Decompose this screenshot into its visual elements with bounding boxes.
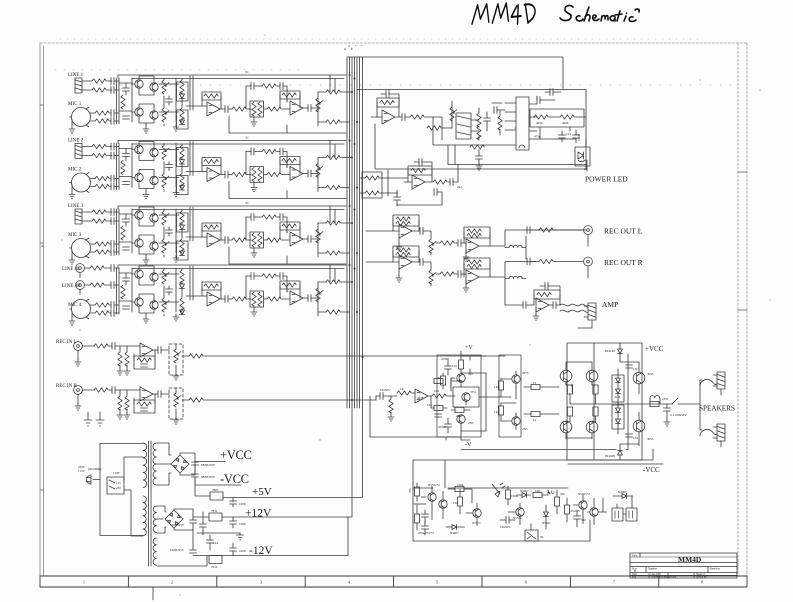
svg-text:6800U50V: 6800U50V bbox=[201, 475, 216, 479]
svg-text:100: 100 bbox=[434, 389, 439, 393]
resistor RoR bbox=[189, 398, 203, 402]
svg-text:IN4148: IN4148 bbox=[605, 349, 615, 353]
resistor R53 bbox=[650, 401, 659, 406]
svg-text:N5551: N5551 bbox=[472, 521, 481, 525]
capacitor C105 bbox=[200, 524, 207, 527]
op-amp U5A bbox=[140, 343, 153, 357]
svg-text:LINE 3: LINE 3 bbox=[68, 204, 84, 209]
resistor R23 bbox=[477, 126, 481, 140]
level pot VR3 bbox=[451, 101, 453, 128]
resistor R44 bbox=[455, 407, 464, 412]
resistor R46 bbox=[498, 406, 503, 415]
svg-text:30: 30 bbox=[540, 535, 544, 539]
svg-text:10W: 10W bbox=[662, 397, 668, 401]
capacitor C4L bbox=[111, 265, 114, 272]
drawing frame border bbox=[40, 43, 747, 576]
bus line 2 bbox=[349, 57, 351, 408]
resistor R29 bbox=[365, 176, 379, 180]
svg-text:10u50V: 10u50V bbox=[500, 525, 511, 529]
twisted wire to amp bbox=[560, 304, 588, 307]
svg-text:10n: 10n bbox=[427, 403, 432, 407]
svg-text:4066: 4066 bbox=[562, 121, 569, 125]
capacitor C25 bbox=[550, 89, 553, 96]
transistor Q41 bbox=[135, 270, 143, 278]
capacitor CoR bbox=[158, 391, 161, 398]
bus line 3 bbox=[351, 57, 353, 517]
svg-text:+5V: +5V bbox=[252, 486, 272, 498]
transistor Q56 bbox=[586, 370, 598, 382]
transistor Q42 bbox=[150, 273, 158, 281]
op-amp U3C bbox=[399, 255, 412, 269]
svg-text:4700P: 4700P bbox=[441, 357, 449, 361]
bus junction dots bbox=[349, 74, 364, 401]
transformer T1 secondary winding a bbox=[153, 443, 157, 485]
resistor RfL bbox=[137, 358, 151, 362]
driver stage enclosure bbox=[499, 355, 521, 437]
resistor R75 bbox=[533, 492, 542, 497]
svg-text:LINE 1: LINE 1 bbox=[68, 73, 84, 78]
svg-text:120: 120 bbox=[452, 364, 457, 368]
svg-text:10: 10 bbox=[533, 418, 537, 422]
svg-text:2N5: 2N5 bbox=[468, 421, 474, 425]
wire -V rail to +VCC diode bbox=[461, 354, 628, 450]
diode D70 bbox=[452, 525, 457, 530]
svg-text:Revision: Revision bbox=[710, 568, 721, 571]
IC U10 bbox=[516, 97, 529, 150]
svg-text:47k: 47k bbox=[408, 488, 412, 493]
svg-text:N4007: N4007 bbox=[520, 489, 529, 493]
svg-text:7912: 7912 bbox=[211, 565, 218, 569]
resistor R42 bbox=[432, 394, 446, 398]
svg-text:4066: 4066 bbox=[536, 121, 543, 125]
op-amp U3A feedback bbox=[393, 215, 419, 226]
wire top-57 down bbox=[433, 117, 556, 145]
svg-text:470u/25V*2: 470u/25V*2 bbox=[418, 531, 434, 535]
capacitor C24 bbox=[537, 97, 540, 104]
resistor RM4b bbox=[95, 311, 109, 315]
svg-text:SPEAKERS: SPEAKERS bbox=[699, 405, 735, 413]
channel 4 shared circuitry bbox=[117, 265, 353, 323]
svg-text:+VCC: +VCC bbox=[645, 345, 664, 353]
op-amp U3B feedback bbox=[464, 227, 490, 238]
wire mid bbox=[479, 373, 501, 431]
connector LINE 4R bbox=[76, 281, 85, 290]
op-amp U2B bbox=[412, 175, 425, 189]
op-amp U4B bbox=[290, 291, 303, 305]
bus line 5 bbox=[356, 57, 358, 408]
resistor RfR bbox=[137, 402, 151, 406]
svg-text:10u50V: 10u50V bbox=[380, 388, 391, 392]
svg-text:115V: 115V bbox=[78, 469, 86, 473]
handwritten page title MM4D Schematic bbox=[472, 3, 535, 24]
svg-text:5: 5 bbox=[436, 580, 438, 585]
connector REC IN R bbox=[74, 386, 83, 395]
svg-text:10: 10 bbox=[533, 381, 537, 385]
svg-text:4: 4 bbox=[348, 580, 350, 585]
svg-text:MIC 1: MIC 1 bbox=[68, 102, 82, 107]
svg-text:+12V: +12V bbox=[245, 508, 272, 520]
capacitor C20 bbox=[386, 91, 389, 98]
capacitor CfL bbox=[141, 364, 148, 367]
resistor RgL1 bbox=[118, 352, 122, 366]
capacitor C71 bbox=[422, 526, 429, 529]
svg-text:E: E bbox=[351, 47, 353, 51]
wire U2A output bbox=[371, 116, 402, 118]
resistor RgR1 bbox=[118, 396, 122, 410]
transistor Q44 bbox=[150, 301, 158, 309]
REC IN R input bbox=[56, 384, 376, 424]
LED D71 bbox=[492, 483, 505, 497]
op-amp U5B bbox=[140, 387, 153, 401]
svg-text:3: 3 bbox=[260, 580, 262, 585]
scan artifacts bbox=[55, 39, 740, 85]
resistor RgL2 bbox=[125, 352, 129, 366]
resistor R43 bbox=[458, 360, 463, 369]
volume pot R (dashed) bbox=[169, 388, 183, 419]
op-amp U3A bbox=[399, 224, 412, 238]
svg-text:104: 104 bbox=[566, 132, 571, 136]
resistor R47 bbox=[531, 384, 540, 389]
capacitor C73 bbox=[574, 516, 581, 519]
transformer T1 primary winding b bbox=[143, 496, 146, 536]
capacitor C42 bbox=[445, 424, 452, 427]
connector REC IN L bbox=[74, 342, 83, 351]
svg-text:(50-60Hz): (50-60Hz) bbox=[88, 467, 101, 471]
capacitor C21 bbox=[402, 114, 405, 121]
input stage enclosure bbox=[437, 355, 481, 437]
resistor network R22 bbox=[477, 113, 481, 127]
diode D74 bbox=[622, 494, 627, 499]
svg-text:15n: 15n bbox=[633, 367, 638, 371]
resistor R45 bbox=[498, 381, 503, 390]
bridge rectifier BR1 bbox=[171, 455, 189, 473]
transistor Q70 bbox=[428, 493, 436, 501]
svg-text:115: 115 bbox=[116, 481, 121, 485]
capacitor C53 bbox=[450, 179, 453, 186]
transistor Q58 bbox=[586, 421, 598, 433]
svg-text:1K: 1K bbox=[400, 387, 405, 391]
svg-text:47u16V: 47u16V bbox=[570, 509, 581, 513]
frame left zone tick A bbox=[40, 105, 747, 490]
capacitor C108 (100u) bbox=[230, 548, 237, 551]
svg-text:230: 230 bbox=[116, 486, 121, 490]
wire output node bbox=[613, 403, 658, 405]
svg-text:REC IN L: REC IN L bbox=[56, 340, 77, 345]
capacitor C4R bbox=[111, 282, 114, 289]
resistor RiL bbox=[94, 344, 108, 348]
capacitor C22 bbox=[484, 118, 491, 121]
wire amp -V rail bbox=[370, 396, 461, 440]
transistor Q71 bbox=[439, 500, 447, 508]
svg-text:110V: 110V bbox=[113, 471, 121, 475]
op-amp U2A feedback bbox=[377, 98, 399, 107]
svg-text:47k: 47k bbox=[560, 492, 565, 496]
capacitor C28 bbox=[394, 197, 401, 200]
op-amp U3C feedback bbox=[393, 246, 419, 257]
capacitor C36 bbox=[523, 302, 526, 309]
capacitor C31 bbox=[458, 240, 461, 247]
svg-text:AMP: AMP bbox=[602, 300, 618, 309]
svg-text:3055: 3055 bbox=[647, 372, 654, 376]
wire secondary to bridge bbox=[157, 443, 171, 485]
resistor R57 bbox=[433, 180, 447, 184]
capacitor CM4b bbox=[111, 310, 114, 317]
bias transistor box bbox=[453, 387, 479, 407]
svg-text:-: - bbox=[358, 47, 359, 51]
capacitor C27 bbox=[419, 159, 422, 166]
svg-text:+VCC: +VCC bbox=[220, 448, 252, 462]
svg-text:10k: 10k bbox=[453, 501, 458, 505]
svg-text:473u: 473u bbox=[534, 135, 541, 139]
emitter resistor R50 bbox=[593, 385, 598, 394]
svg-text:+: + bbox=[355, 44, 357, 48]
REC IN L input bbox=[56, 340, 505, 380]
capacitor CfR bbox=[141, 408, 148, 411]
emitter resistor R52 bbox=[593, 407, 598, 416]
regulator 7912 bbox=[209, 556, 222, 564]
svg-text:7812: 7812 bbox=[211, 509, 218, 513]
AMP terminal bbox=[584, 303, 596, 320]
pot VR5 bbox=[429, 270, 436, 284]
svg-text:+V: +V bbox=[465, 345, 473, 351]
op-amp U6 feedback bbox=[534, 290, 560, 299]
resistor RgR2 bbox=[125, 396, 129, 410]
svg-text:MIC 2: MIC 2 bbox=[68, 168, 82, 173]
capacitor C106 (104) bbox=[207, 540, 214, 543]
svg-text:0.1 100u50V: 0.1 100u50V bbox=[670, 413, 687, 417]
svg-text:Title: Title bbox=[632, 555, 638, 558]
svg-text:Drawn By:: Drawn By: bbox=[696, 576, 708, 579]
svg-text:-VCC: -VCC bbox=[220, 472, 249, 486]
svg-text:20: 20 bbox=[584, 167, 588, 171]
resistor R48 bbox=[531, 411, 540, 416]
op-amp U4A bbox=[207, 292, 220, 306]
svg-text:+: + bbox=[361, 44, 363, 48]
bus line 1 bbox=[346, 57, 348, 408]
capacitor C103 (1000u) bbox=[190, 520, 197, 523]
transistor Q75 bbox=[590, 508, 598, 516]
inductor L2 bbox=[509, 276, 522, 278]
connector MIC 4 bbox=[70, 299, 91, 319]
wire bus to power block bbox=[347, 57, 563, 89]
svg-text:5551: 5551 bbox=[470, 390, 477, 394]
svg-text:-VCC: -VCC bbox=[643, 466, 660, 474]
svg-text:4558: 4558 bbox=[417, 396, 424, 400]
resistor R25 bbox=[534, 115, 548, 119]
capacitor C70 bbox=[422, 514, 429, 517]
transistor Q50 bbox=[457, 374, 465, 382]
capacitor C34 bbox=[458, 271, 461, 278]
input cap C40 bbox=[376, 396, 380, 400]
svg-text:Number: Number bbox=[648, 568, 657, 571]
transformer T1 primary winding a bbox=[143, 443, 147, 487]
resistor R26 bbox=[560, 115, 574, 119]
resistor R76 bbox=[554, 497, 559, 506]
power block enclosure wire bbox=[357, 90, 586, 170]
AC mains plug bbox=[86, 475, 100, 484]
resistor R71 bbox=[414, 514, 419, 523]
transistor Q73 bbox=[516, 508, 524, 516]
long rail to LED bbox=[448, 145, 587, 165]
svg-text:MIC 4: MIC 4 bbox=[68, 303, 82, 308]
transistor Q53 bbox=[512, 375, 520, 383]
diode D72 bbox=[522, 493, 527, 498]
transistor Q51 bbox=[462, 393, 470, 401]
op-amp U6 bbox=[536, 298, 549, 312]
resistor R72 bbox=[455, 486, 464, 491]
transistor Q72 bbox=[473, 509, 481, 517]
resistor RM4a bbox=[95, 303, 109, 307]
driver transistor Q59 bbox=[633, 372, 645, 384]
capacitor C100 (6800u) bbox=[192, 462, 199, 465]
output stage enclosure bbox=[567, 343, 642, 460]
ground mid bbox=[197, 532, 240, 534]
svg-text:MIC 3: MIC 3 bbox=[68, 233, 82, 238]
transistor Q43 bbox=[135, 298, 143, 306]
resistor R21 bbox=[427, 126, 441, 130]
emitter resistor R51 bbox=[567, 407, 572, 416]
svg-text:1: 1 bbox=[83, 580, 85, 585]
svg-text:N5551: N5551 bbox=[513, 516, 522, 520]
svg-text:100U: 100U bbox=[239, 549, 247, 553]
capacitor C32 bbox=[527, 227, 530, 234]
svg-text:100k: 100k bbox=[457, 483, 464, 487]
op-amp U2A bbox=[382, 110, 395, 124]
relay RL1 bbox=[525, 530, 538, 541]
svg-text:2: 2 bbox=[171, 580, 173, 585]
op-amp U3B bbox=[466, 239, 479, 253]
resistor R74 bbox=[505, 490, 510, 499]
svg-text:2u2: 2u2 bbox=[457, 185, 462, 189]
svg-text:15n: 15n bbox=[633, 436, 638, 440]
capacitor C101 (6800u) bbox=[192, 474, 199, 477]
regulator 7812 bbox=[209, 513, 222, 521]
svg-text:3C: 3C bbox=[245, 136, 249, 140]
resistor R20 bbox=[410, 115, 424, 119]
frame bottom ruler bbox=[40, 576, 747, 600]
transistor Q52 bbox=[457, 415, 465, 423]
svg-text:MM4D: MM4D bbox=[678, 555, 702, 564]
capacitor C30 bbox=[420, 228, 423, 235]
svg-text:10K: 10K bbox=[535, 489, 541, 493]
headphone jack J10 bbox=[456, 113, 471, 139]
primary wiring bbox=[100, 444, 143, 537]
mix bus wires bbox=[344, 44, 363, 517]
svg-text:330: 330 bbox=[581, 518, 586, 522]
svg-text:3055: 3055 bbox=[647, 437, 654, 441]
bus line 7 bbox=[362, 57, 364, 498]
svg-text:7: 7 bbox=[613, 580, 615, 585]
LED indicator connector bbox=[575, 147, 590, 166]
connector REC OUT L bbox=[584, 226, 593, 235]
connector LINE 4L bbox=[76, 264, 85, 273]
inductor L1 bbox=[509, 245, 522, 247]
resistor R4R bbox=[90, 283, 104, 287]
lower op-amp U2B feedback bbox=[408, 166, 432, 175]
capacitor C52 bbox=[476, 156, 483, 159]
svg-text:6800U50V: 6800U50V bbox=[201, 463, 216, 467]
capacitor C41 bbox=[445, 366, 452, 369]
op-amp U7 bbox=[415, 389, 428, 403]
svg-text:N4007: N4007 bbox=[450, 531, 459, 535]
resistor R34 bbox=[539, 259, 553, 263]
+VCC diode D10 bbox=[619, 343, 621, 349]
capacitor CM4a bbox=[111, 302, 114, 309]
emitter resistor R49 bbox=[567, 385, 572, 394]
speaker terminal bottom bbox=[713, 424, 725, 441]
svg-text:N5551*2: N5551*2 bbox=[428, 483, 440, 487]
capacitor C33 bbox=[420, 259, 423, 266]
resistor R40 bbox=[389, 399, 393, 413]
capacitor C102 (100u) bbox=[230, 501, 237, 504]
capacitor C107 (100u) bbox=[230, 521, 237, 524]
svg-text:1K: 1K bbox=[494, 385, 499, 389]
capacitor C50 bbox=[559, 135, 566, 138]
svg-text:4700P: 4700P bbox=[438, 425, 446, 429]
svg-text:8: 8 bbox=[701, 580, 703, 585]
resistor RiR bbox=[94, 388, 108, 392]
pot VR4 bbox=[429, 239, 436, 253]
wire to speaker terminals bbox=[700, 380, 702, 430]
resistor R24 bbox=[498, 116, 502, 130]
transistor Q55 bbox=[560, 370, 572, 382]
resistor R77 bbox=[564, 505, 569, 514]
transformer T1 secondary winding c bbox=[153, 538, 156, 565]
svg-text:N4007: N4007 bbox=[618, 490, 627, 494]
wire -VCC rail bbox=[568, 463, 663, 465]
chassis ground symbols bbox=[84, 412, 104, 426]
voltage selector switch SW1 bbox=[107, 477, 124, 494]
svg-text:U: U bbox=[551, 491, 555, 496]
bias diodes bbox=[612, 375, 624, 402]
volume pot L (dashed) bbox=[169, 344, 183, 375]
resistor R58 bbox=[470, 145, 484, 149]
capacitor C35 bbox=[527, 258, 530, 265]
-VCC diode D11 bbox=[619, 455, 621, 460]
resistor R4L bbox=[90, 266, 104, 270]
secondary b wires to bridge2 bbox=[157, 506, 166, 533]
svg-text:REC OUT L: REC OUT L bbox=[604, 227, 643, 236]
resistor R41 bbox=[397, 391, 411, 395]
svg-text:7805: 7805 bbox=[212, 488, 219, 492]
svg-text:1K: 1K bbox=[494, 410, 499, 414]
svg-text:3C: 3C bbox=[245, 201, 249, 205]
channel 4 strip (LINE 4L / LINE 4R / MIC 4) bbox=[62, 264, 352, 325]
svg-text:0.22W: 0.22W bbox=[570, 383, 574, 392]
svg-text:2N5: 2N5 bbox=[522, 427, 528, 431]
svg-text:4148: 4148 bbox=[614, 395, 621, 399]
svg-text:100U: 100U bbox=[577, 133, 581, 141]
capacitor C72 bbox=[506, 517, 509, 524]
capacitor C51 bbox=[573, 135, 580, 138]
svg-text:100U: 100U bbox=[239, 522, 247, 526]
svg-text:100U: 100U bbox=[239, 502, 247, 506]
capacitor CoL bbox=[158, 347, 161, 354]
svg-text:104: 104 bbox=[213, 541, 218, 545]
op-amp U3D feedback bbox=[464, 258, 490, 269]
transistor Q74 bbox=[579, 501, 587, 509]
resistor R73 bbox=[457, 497, 462, 506]
regulator 7805 bbox=[210, 492, 223, 500]
capacitor C37 bbox=[545, 283, 548, 290]
op-amp U3D bbox=[466, 270, 479, 284]
capacitor C29 bbox=[434, 189, 437, 196]
resistor RoL bbox=[189, 354, 203, 358]
resistor R31 bbox=[440, 241, 454, 245]
svg-text:-V: -V bbox=[465, 442, 472, 448]
driver transistor Q60 bbox=[633, 420, 645, 432]
inductor L3 bbox=[650, 396, 660, 398]
